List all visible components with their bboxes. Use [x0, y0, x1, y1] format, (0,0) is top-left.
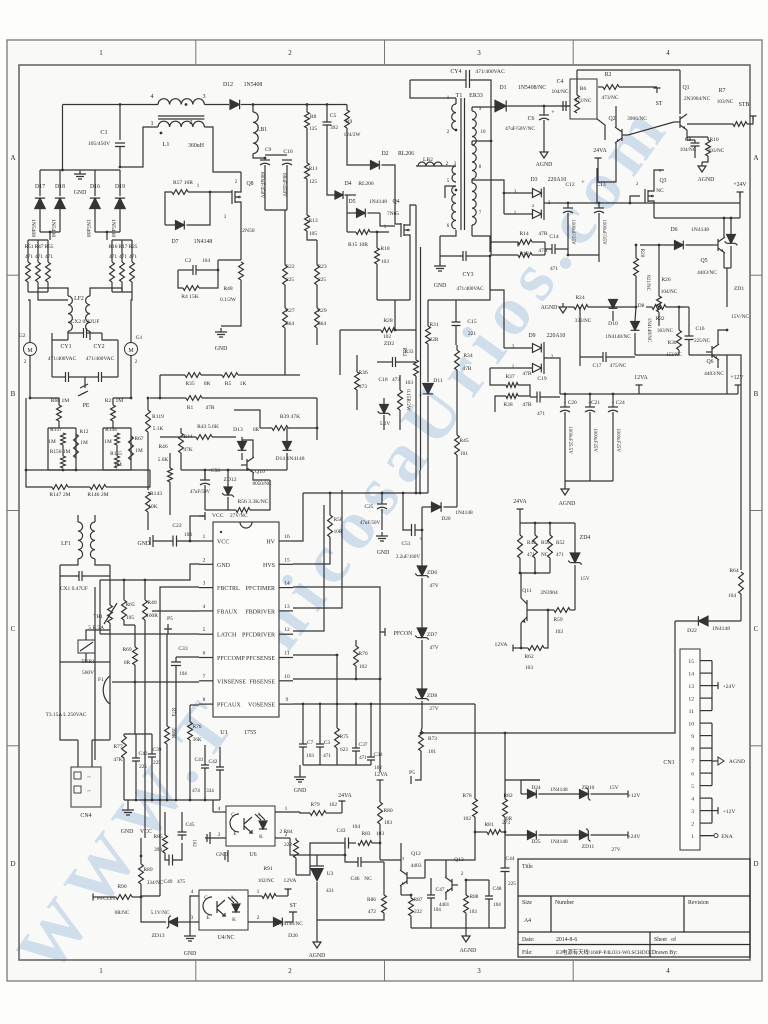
wire: [504, 192, 533, 194]
resistor R157 1M: [61, 433, 66, 445]
svg-text:T3.15A L 250VAC: T3.15A L 250VAC: [46, 712, 87, 718]
wire: [488, 899, 490, 928]
svg-text:471: 471: [25, 254, 33, 260]
svg-text:D: D: [10, 860, 15, 868]
svg-text:VOSENSE: VOSENSE: [248, 703, 275, 709]
svg-text:C46: C46: [351, 876, 360, 882]
wire: [345, 194, 357, 196]
wire: [718, 330, 727, 344]
wire: [130, 356, 132, 399]
wire: [422, 506, 432, 508]
power +24V (CN1): [717, 682, 719, 689]
svg-text:27V: 27V: [429, 706, 438, 712]
svg-text:R4 15K: R4 15K: [181, 294, 199, 300]
svg-text:+12V: +12V: [723, 809, 736, 815]
wire: [399, 410, 401, 430]
wire: [286, 428, 288, 441]
svg-text:+24V: +24V: [733, 182, 747, 188]
wire: [711, 798, 713, 823]
wire: [92, 739, 110, 741]
wire: [253, 104, 347, 106]
wire: [491, 241, 518, 243]
wire: [739, 192, 741, 203]
wire: [505, 779, 540, 781]
wire: [381, 493, 383, 504]
wire: [140, 884, 142, 911]
svg-text:12VA: 12VA: [634, 375, 648, 381]
wire: [336, 655, 338, 728]
svg-text:C51: C51: [402, 541, 411, 547]
wire: [376, 264, 378, 300]
wire: [147, 398, 149, 410]
wire: [123, 758, 125, 800]
wire: [700, 697, 712, 699]
svg-text:623: 623: [340, 747, 348, 753]
resistor R25 471: [130, 262, 135, 282]
wire: [286, 453, 288, 470]
diode D17 1N5408: [35, 198, 45, 208]
wire: [597, 202, 740, 204]
wire: [135, 761, 137, 800]
wire: [456, 370, 458, 430]
wire: [543, 120, 545, 148]
wire: [169, 453, 171, 468]
wire: [415, 376, 417, 470]
wire: [471, 141, 473, 145]
svg-text:C2: C2: [185, 258, 192, 264]
svg-text:102: 102: [383, 334, 391, 340]
wire: [400, 843, 402, 870]
wire: [85, 376, 99, 378]
svg-text:680uF/450V: 680uF/450V: [259, 172, 265, 198]
svg-text:47R: 47R: [463, 366, 472, 372]
svg-text:0R/NC: 0R/NC: [115, 910, 130, 916]
wire: [410, 79, 466, 81]
wire: [181, 812, 183, 832]
svg-text:125: 125: [309, 179, 317, 185]
wire: [68, 332, 84, 334]
svg-text:D3: D3: [530, 177, 537, 183]
wire: [319, 704, 321, 744]
wire: [612, 394, 614, 407]
svg-text:15V/NC: 15V/NC: [731, 314, 749, 320]
wire: [205, 509, 236, 511]
svg-text:R50: R50: [541, 540, 550, 546]
wire: [409, 239, 411, 300]
wire: [119, 105, 121, 141]
wire: [700, 772, 712, 774]
wire: [279, 540, 293, 542]
wire: [519, 514, 521, 523]
wire: [471, 225, 473, 236]
wire: [131, 282, 133, 292]
wire: [91, 740, 93, 767]
svg-text:C47: C47: [436, 887, 445, 893]
diode D26: [274, 918, 283, 927]
svg-text:9: 9: [286, 697, 289, 703]
svg-text:4: 4: [666, 967, 670, 975]
wire: [112, 398, 114, 405]
svg-text:R65: R65: [125, 602, 135, 608]
wire: [700, 760, 712, 762]
wire: [556, 168, 597, 203]
wire: [568, 254, 599, 256]
wire: [25, 398, 27, 470]
svg-text:D18: D18: [55, 184, 65, 190]
svg-text:CN4: CN4: [80, 813, 91, 819]
wire: [241, 104, 253, 106]
svg-text:R57 10R: R57 10R: [173, 180, 193, 186]
svg-text:24VA: 24VA: [593, 148, 607, 154]
wire: [175, 666, 177, 701]
svg-text:1: 1: [691, 834, 694, 840]
wire: [204, 485, 206, 510]
svg-text:Q12: Q12: [411, 851, 421, 857]
wire: [109, 623, 111, 638]
svg-text:R40: R40: [147, 600, 157, 606]
svg-text:NC: NC: [541, 552, 549, 558]
svg-text:10R: 10R: [334, 529, 343, 535]
wire: [543, 106, 545, 115]
svg-text:R85: R85: [153, 834, 163, 840]
svg-text:471: 471: [35, 254, 43, 260]
wire: [293, 493, 303, 541]
svg-text:2: 2: [288, 49, 292, 57]
wire: [579, 357, 581, 366]
svg-text:5.1V/NC: 5.1V/NC: [151, 910, 170, 916]
wire: [265, 154, 287, 156]
svg-text:CY4: CY4: [451, 69, 462, 75]
svg-text:475: 475: [177, 879, 185, 885]
svg-text:47K: 47K: [183, 447, 192, 453]
svg-text:102/NC: 102/NC: [258, 878, 275, 884]
wire: [39, 208, 41, 232]
wire: [560, 393, 738, 395]
power AGND: [543, 148, 545, 152]
svg-text:1N4148: 1N4148: [369, 199, 387, 205]
resistor R155 1M: [115, 456, 120, 468]
wire: [188, 191, 232, 193]
svg-text:1N5408: 1N5408: [30, 219, 36, 237]
wire: [598, 213, 600, 255]
title block: [518, 859, 750, 957]
wire: [295, 858, 297, 875]
wire: [165, 853, 169, 860]
svg-text:Date:: Date:: [522, 937, 535, 943]
wire: [456, 345, 458, 350]
wire: [240, 172, 242, 188]
svg-text:D5: D5: [348, 199, 355, 205]
wire: [117, 340, 119, 377]
wire: [520, 780, 522, 794]
wire: [299, 765, 301, 773]
svg-text:1N4148/NC: 1N4148/NC: [646, 318, 651, 343]
wire: [82, 575, 110, 577]
svg-text:68uF/450V: 68uF/450V: [281, 173, 287, 197]
svg-text:4: 4: [218, 806, 221, 812]
wire: [370, 704, 372, 757]
wire: [302, 704, 304, 744]
svg-text:R146 2M: R146 2M: [87, 492, 108, 498]
wire: [227, 470, 229, 487]
wire: [370, 760, 372, 765]
wire: [28, 291, 48, 293]
wire: [165, 224, 176, 226]
svg-text:15V: 15V: [609, 785, 618, 791]
svg-text:R28: R28: [383, 318, 393, 324]
svg-text:3: 3: [477, 967, 481, 975]
wire: [58, 421, 60, 428]
svg-text:AGND: AGND: [729, 759, 745, 765]
svg-text:R24: R24: [575, 295, 585, 301]
svg-text:GND: GND: [294, 788, 307, 794]
wire: [474, 774, 476, 799]
wire: [60, 700, 78, 740]
wire: [40, 231, 60, 233]
svg-text:1N5408: 1N5408: [110, 219, 116, 237]
wire: [370, 231, 389, 233]
wire: [401, 894, 411, 896]
svg-text:M: M: [27, 348, 33, 354]
svg-text:2: 2: [203, 557, 206, 563]
wire: [490, 368, 506, 385]
wire: [739, 203, 741, 218]
svg-text:3: 3: [203, 581, 206, 587]
wire: [28, 239, 48, 241]
svg-text:27V/NC: 27V/NC: [230, 513, 248, 519]
wire: [199, 610, 213, 612]
svg-text:M: M: [128, 348, 134, 354]
T1 secondary 8-7: [472, 183, 476, 225]
svg-text:A: A: [10, 154, 15, 162]
L1 dot: [160, 132, 163, 135]
svg-text:104: 104: [179, 671, 187, 677]
wire: [316, 328, 318, 345]
wire: [444, 506, 458, 508]
wire: [394, 300, 396, 330]
wire: [204, 127, 241, 172]
wire: [166, 744, 168, 800]
wire: [293, 654, 337, 656]
svg-text:24VA: 24VA: [338, 793, 352, 799]
svg-text:R14: R14: [519, 231, 529, 237]
svg-text:VCC: VCC: [140, 829, 152, 835]
wire: [700, 735, 712, 737]
svg-text:100R: 100R: [146, 613, 158, 619]
svg-text:473: 473: [392, 377, 400, 383]
resistor R47 471: [36, 262, 41, 282]
svg-text:11: 11: [284, 651, 289, 657]
wire: [204, 745, 206, 765]
svg-text:5: 5: [203, 627, 206, 633]
svg-text:9: 9: [691, 734, 694, 740]
wire: [346, 195, 348, 232]
svg-text:225: 225: [153, 760, 161, 766]
wire: [205, 837, 226, 839]
svg-text:102: 102: [555, 629, 563, 635]
wire: [380, 213, 395, 226]
resistor R6 box: [570, 79, 597, 119]
resistor R35 0R: [185, 373, 201, 378]
wire: [112, 421, 114, 428]
wire: [119, 170, 121, 196]
wire: [723, 253, 725, 268]
wire: [527, 609, 554, 611]
svg-text:R18: R18: [380, 246, 390, 252]
svg-text:16: 16: [284, 534, 290, 540]
svg-text:10: 10: [284, 674, 290, 680]
wire: [421, 530, 423, 566]
svg-text:C45: C45: [186, 822, 195, 828]
wire: [580, 356, 603, 358]
wire: [347, 155, 371, 165]
resistor R144 1M: [115, 433, 120, 445]
wire: [234, 410, 260, 428]
wire: [130, 428, 132, 470]
wire: [372, 842, 380, 844]
wire: [540, 396, 560, 398]
wire: [62, 105, 64, 171]
svg-text:8050/NC: 8050/NC: [252, 481, 272, 487]
port ENA: [714, 834, 718, 838]
wire: [445, 186, 456, 198]
svg-text:ZD12: ZD12: [223, 477, 236, 483]
wire: [737, 390, 739, 394]
wire: [121, 240, 123, 262]
wire: [560, 834, 580, 836]
svg-text:D25: D25: [531, 839, 541, 845]
wire: [180, 453, 182, 470]
svg-text:Q8: Q8: [246, 181, 253, 187]
wire: [694, 140, 696, 143]
svg-text:1N4148: 1N4148: [550, 839, 568, 845]
svg-text:471: 471: [359, 755, 367, 761]
wire: [49, 232, 51, 240]
wire: [102, 333, 118, 340]
svg-text:101: 101: [428, 749, 436, 755]
svg-text:183: 183: [384, 820, 392, 826]
diode D7 1N4148: [176, 221, 185, 230]
svg-text:C37: C37: [359, 742, 368, 748]
svg-text:471: 471: [537, 411, 545, 417]
svg-text:A4: A4: [524, 918, 531, 924]
wire: [141, 896, 160, 897]
wire: [532, 254, 545, 256]
wire: [147, 512, 149, 530]
diode D16 1N5408: [90, 198, 100, 208]
svg-text:+24V: +24V: [723, 684, 736, 690]
svg-text:1N4148: 1N4148: [194, 239, 213, 245]
svg-text:FBCTRL: FBCTRL: [217, 586, 240, 592]
wire: [410, 895, 412, 898]
svg-text:C7: C7: [307, 740, 314, 746]
svg-text:3906/NC: 3906/NC: [627, 116, 647, 122]
svg-text:431: 431: [326, 888, 334, 894]
svg-text:R47: R47: [35, 244, 44, 250]
wire: [106, 232, 108, 240]
wire: [415, 205, 417, 360]
wire: [706, 620, 742, 622]
wire: [204, 470, 206, 480]
wire: [347, 231, 356, 233]
resistor R4 15K: [183, 286, 199, 291]
svg-text:104: 104: [184, 532, 192, 538]
svg-text:GND: GND: [216, 852, 228, 858]
svg-text:LB1: LB1: [257, 127, 267, 133]
wire: [711, 661, 713, 711]
wire: [279, 610, 293, 612]
wire: [346, 105, 348, 111]
wire: [109, 662, 111, 676]
svg-text:392: 392: [330, 125, 338, 131]
wire: [567, 213, 569, 255]
power AGND (Q13): [465, 932, 467, 936]
svg-text:CY3: CY3: [463, 272, 474, 278]
wire: [109, 704, 111, 740]
wire: [144, 580, 146, 600]
wire: [395, 329, 416, 331]
wire: [275, 811, 300, 813]
wire: [135, 734, 137, 758]
svg-text:GND: GND: [434, 283, 447, 289]
svg-text:R86: R86: [367, 897, 376, 903]
wire: [59, 576, 61, 700]
svg-text:R10: R10: [709, 137, 719, 143]
svg-text:C19: C19: [537, 376, 547, 382]
wire: [134, 682, 136, 734]
wire: [178, 270, 183, 288]
wire: [379, 824, 381, 860]
connector CN1: [680, 649, 700, 850]
wire: [495, 396, 506, 412]
wire: [169, 482, 171, 515]
svg-text:P5: P5: [167, 616, 173, 622]
wire: [712, 810, 718, 812]
resistor R16 471: [110, 262, 115, 282]
wire: [112, 291, 132, 293]
wire: [612, 299, 614, 307]
wire: [726, 268, 728, 307]
wire: [560, 793, 580, 795]
svg-text:101: 101: [460, 451, 468, 457]
wire: [474, 704, 476, 774]
wire: [465, 913, 467, 928]
svg-text:225: 225: [508, 881, 516, 887]
wire: [377, 361, 393, 363]
wire: [396, 361, 417, 363]
svg-text:1N4148: 1N4148: [550, 787, 568, 793]
svg-text:103: 103: [469, 909, 477, 915]
title block text: [522, 864, 709, 956]
wire: [702, 156, 708, 162]
wire: [340, 329, 381, 331]
resistor R12 1M: [74, 434, 79, 458]
svg-text:LF2: LF2: [74, 296, 84, 302]
svg-text:2 R84: 2 R84: [279, 829, 292, 835]
diode D18 1N5408: [55, 198, 65, 208]
svg-text:R70: R70: [358, 651, 368, 657]
svg-text:R33: R33: [405, 349, 414, 355]
svg-text:D14 1N4148: D14 1N4148: [275, 456, 304, 462]
svg-text:PFCON: PFCON: [394, 631, 414, 637]
wire: [539, 793, 561, 795]
svg-text:474: 474: [192, 788, 200, 794]
wire: [456, 256, 490, 300]
wire: [109, 638, 111, 662]
wire: [687, 139, 695, 141]
svg-text:4401: 4401: [439, 902, 450, 908]
wire: [440, 255, 463, 257]
